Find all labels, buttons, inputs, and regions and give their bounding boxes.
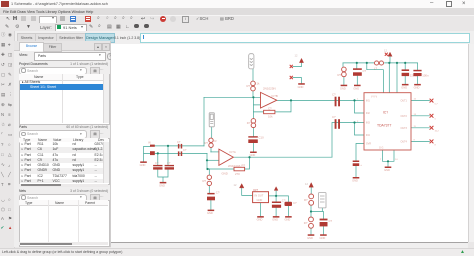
wire shunt cap drops <box>158 146 168 182</box>
wire op-amp U2B -input stub <box>207 159 219 161</box>
ground GND5 (op power) <box>298 83 305 85</box>
canvas right scrollbar <box>468 44 474 242</box>
wire op-amp U2B feedback <box>207 157 250 169</box>
svg-text:C?: C? <box>155 161 159 165</box>
capacitor C14 (reg out tant) <box>285 202 293 206</box>
resistor R4 (op U2B lower chain) <box>207 175 211 185</box>
capacitor C2 series IN2 <box>335 119 340 129</box>
wire bias divider <box>311 187 323 234</box>
svg-text:L?: L? <box>374 67 378 71</box>
ground GND7 (rail C9) <box>354 85 361 87</box>
project documents <box>19 62 48 66</box>
svg-text:R?: R? <box>203 179 207 183</box>
svg-text:GND: GND <box>340 86 346 90</box>
parts table <box>19 138 110 186</box>
capacitor C5 shunt A <box>153 165 162 170</box>
resistor R8 feedback U2B <box>234 167 245 171</box>
connector J3 (gray) <box>319 193 327 208</box>
svg-text:C?: C? <box>167 161 171 165</box>
resistor R5 (bias upper) <box>309 194 314 205</box>
svg-text:GND: GND <box>257 218 263 222</box>
pin cross op power V- <box>290 76 293 79</box>
wire IC top pins <box>389 57 397 93</box>
svg-text:C10: C10 <box>259 136 265 140</box>
nets header <box>19 189 26 193</box>
supply VCC2 (top rail) <box>388 52 392 56</box>
left panel <box>14 41 111 247</box>
wire rail end drops <box>343 63 418 70</box>
tab row <box>0 31 474 44</box>
svg-text:IN4: IN4 <box>366 134 370 137</box>
svg-text:IN1: IN1 <box>366 100 370 103</box>
wire regulator output rail <box>269 190 289 202</box>
svg-text:V V V: V V V <box>371 96 378 99</box>
status bar <box>0 248 474 256</box>
svg-text:7: 7 <box>380 159 382 161</box>
svg-text:C?: C? <box>332 115 336 119</box>
resistor R6 (bias lower) <box>309 217 314 228</box>
svg-text:GND: GND <box>414 86 420 90</box>
svg-text:C?: C? <box>332 93 336 97</box>
wire regulator gnd pin <box>261 203 289 217</box>
capacitor C9 (rail elco) <box>353 68 362 76</box>
svg-text:GND: GND <box>159 184 165 188</box>
supply VCC3 (reg in) <box>240 184 244 188</box>
wire rail to IC pin jog <box>367 63 384 93</box>
capacitor C11 (rail) <box>413 70 421 76</box>
svg-text:12: 12 <box>295 54 298 58</box>
parts hscroll <box>19 184 108 187</box>
capacitor C13 (reg out elco) <box>272 202 281 208</box>
pin cross op power V+ <box>290 65 293 68</box>
no-connect X OUT2 <box>430 114 434 118</box>
toolbar row 1 <box>0 15 474 25</box>
wire IN2 pin stubs <box>355 123 365 136</box>
svg-text:12: 12 <box>305 182 308 186</box>
capacitor C10 (rail) <box>402 69 410 76</box>
wire op-amp U2B lower chain <box>208 169 211 210</box>
resistor R3 (conn chain) <box>209 138 213 147</box>
ground GND15 (bias R6) <box>308 234 315 236</box>
svg-text:GND: GND <box>352 179 358 183</box>
ground GND3 (U2A chain) <box>250 152 257 154</box>
svg-text:IC?: IC? <box>383 111 388 115</box>
svg-text:GND: GND <box>257 198 263 202</box>
svg-text:GND: GND <box>401 86 407 90</box>
ground GND13 (C13) <box>273 216 280 218</box>
capacitor C4 series input B <box>178 151 182 156</box>
svg-text:R?: R? <box>247 121 251 125</box>
svg-text:OUT3: OUT3 <box>401 127 408 130</box>
svg-text:IC?: IC? <box>254 188 259 192</box>
svg-text:C?: C? <box>177 140 181 144</box>
svg-text:R?: R? <box>247 84 251 88</box>
documents table <box>103 74 109 123</box>
wire input rail A <box>155 145 204 147</box>
ground GND4 (U2B chain) <box>208 210 215 212</box>
svg-text:12: 12 <box>234 183 237 187</box>
svg-text:OUT4: OUT4 <box>401 140 408 143</box>
canvas <box>111 44 468 242</box>
no-connect X OUT1 <box>430 99 434 103</box>
wire VCC top rail <box>343 62 418 64</box>
svg-text:12: 12 <box>384 49 387 53</box>
capacitor C15 (bias) <box>320 219 328 227</box>
left command toolbar <box>0 31 15 248</box>
svg-text:IN3: IN3 <box>366 122 370 125</box>
svg-text:R?: R? <box>338 73 342 77</box>
svg-text:10.2: 10.2 <box>435 131 440 133</box>
svg-text:GND: GND <box>320 236 326 240</box>
canvas bottom scrollbar <box>111 242 468 249</box>
svg-text:100n: 100n <box>422 74 429 78</box>
no-connect X OUT3 <box>430 126 434 130</box>
wire input rail B <box>155 152 207 154</box>
no-connect X OUT4 <box>430 140 434 144</box>
inductor L1 (top rail series) <box>375 61 384 65</box>
supply VCC5 (bias) <box>309 183 313 188</box>
nets table <box>19 200 110 247</box>
svg-text:GND: GND <box>307 236 313 240</box>
wire regulator input <box>242 188 253 196</box>
capacitor C12 (svr) <box>353 161 360 167</box>
ground GND6 (rail L) <box>341 85 348 87</box>
svg-text:C?: C? <box>216 191 220 195</box>
svg-text:C?: C? <box>329 219 333 223</box>
svg-text:IC?A: IC?A <box>230 150 236 154</box>
regulator IC3 78L05 <box>253 192 269 203</box>
IC U1 TDA7377 <box>364 93 411 150</box>
svg-text:R?: R? <box>205 141 209 145</box>
ground GND16 (bias C15) <box>320 234 327 236</box>
ground GND11 (svr cap) <box>353 177 360 179</box>
svg-text:IN2: IN2 <box>366 112 370 115</box>
svg-text:14: 14 <box>395 159 398 161</box>
svg-text:+: + <box>360 163 362 167</box>
ground GND8 (rail C10) <box>402 84 409 86</box>
wire jack J1 leads <box>252 69 254 97</box>
view row <box>19 53 28 57</box>
svg-text:5.7: 5.7 <box>435 104 439 106</box>
supply VCC4 (reg out) <box>274 187 278 191</box>
wire IN1 pin stubs <box>355 100 365 113</box>
sub-tabs <box>14 41 110 51</box>
svg-text:TDA7377: TDA7377 <box>377 124 391 128</box>
svg-text:GND: GND <box>222 171 228 175</box>
title bar <box>0 0 474 8</box>
menu bar <box>0 8 474 15</box>
ground GND12 (reg) <box>257 216 264 218</box>
input header P1 <box>150 145 155 155</box>
wire op-amp U2A -input node <box>253 97 260 118</box>
op-amp U2B <box>219 149 234 165</box>
parts header <box>19 125 27 129</box>
inductor L2 / trimmer left of rail <box>342 67 347 77</box>
svg-text:2N1025N: 2N1025N <box>263 86 276 90</box>
svg-text:5: 5 <box>435 119 437 121</box>
svg-text:GND: GND <box>384 168 390 172</box>
svg-text:IC?B: IC?B <box>272 94 278 98</box>
ground GND2 (shunt caps) <box>160 182 167 184</box>
wire input ground link <box>144 147 151 162</box>
ground GND1 (input) <box>140 161 147 163</box>
ground GND14 (C14) <box>285 216 292 218</box>
op-amp U2A <box>261 92 277 108</box>
wire connector J2 chain leads <box>210 127 213 152</box>
svg-text:GND: GND <box>298 85 304 89</box>
svg-text:270: 270 <box>235 172 240 176</box>
supply VCC1 (op power) <box>299 58 303 62</box>
ground GND9 (rail C11) <box>414 84 421 86</box>
capacitor C6 shunt B <box>165 165 174 170</box>
svg-text:GND: GND <box>207 211 213 215</box>
wire riser B to op-amp U2B <box>206 153 208 169</box>
svg-text:C?: C? <box>268 107 272 111</box>
wire IC bottom gnd pins <box>383 150 395 167</box>
wire IC output pins to nc <box>411 101 430 142</box>
svg-text:GND: GND <box>285 218 291 222</box>
svg-text:10k: 10k <box>268 114 273 118</box>
pin cross rail <box>385 53 388 56</box>
svg-text:R?: R? <box>304 198 308 202</box>
wire top cap bottom leads <box>344 76 418 85</box>
wire op-amp U2B +input stub <box>211 151 219 153</box>
svg-text:C?: C? <box>293 201 297 205</box>
svg-text:GND: GND <box>353 86 359 90</box>
toolbar row 2 <box>0 23 474 32</box>
capacitor C7 (op U2A chain) <box>248 136 257 143</box>
capacitor C8 (op U2B chain) <box>207 193 215 200</box>
svg-text:C?: C? <box>363 69 367 73</box>
wire riser A to op-amp U2A <box>203 97 205 146</box>
resistor R2 (op U2A bias) <box>251 119 256 128</box>
svg-text:OUT2: OUT2 <box>401 115 408 118</box>
svg-text:C?: C? <box>183 148 187 152</box>
svg-text:R?: R? <box>242 164 246 168</box>
wire op-amp U2A feedback <box>253 100 291 112</box>
wire riser to IN2 <box>332 123 355 158</box>
capacitor C1 series IN1 <box>335 97 340 107</box>
splitter dots <box>111 143 113 145</box>
wire op-amp U2A bias chain <box>252 125 254 151</box>
svg-text:IN OUT: IN OUT <box>255 194 264 198</box>
ground GND10 (IC bottom) <box>385 167 392 169</box>
svg-text:8: 8 <box>435 144 437 146</box>
svg-text:GND: GND <box>250 153 256 157</box>
junction dots <box>252 96 254 98</box>
capacitor C3 series input A <box>178 144 182 149</box>
svg-text:R?: R? <box>304 221 308 225</box>
svg-text:OUT1: OUT1 <box>401 100 408 103</box>
resistor R1 (under jack) <box>251 81 256 91</box>
svg-text:GND: GND <box>140 163 146 167</box>
svg-text:SVR: SVR <box>366 143 371 146</box>
wire op-amp U2B output rail <box>233 156 332 158</box>
wire IC svr pin chain <box>356 144 364 178</box>
connector J2 (gray) <box>209 113 214 127</box>
resistor R7 feedback U2A <box>264 110 275 113</box>
jack J1 (gray) <box>249 54 254 69</box>
svg-text:IN: IN <box>148 141 151 145</box>
wire op-amp U2 power pins <box>293 63 302 84</box>
svg-text:G G: G G <box>379 147 384 150</box>
wire op-amp U2A +input <box>204 96 261 98</box>
svg-text:1k: 1k <box>257 82 261 86</box>
wire op-amp U2A output to IN1 <box>277 99 355 101</box>
svg-text:R: R <box>215 139 217 143</box>
svg-text:GND: GND <box>272 218 278 222</box>
